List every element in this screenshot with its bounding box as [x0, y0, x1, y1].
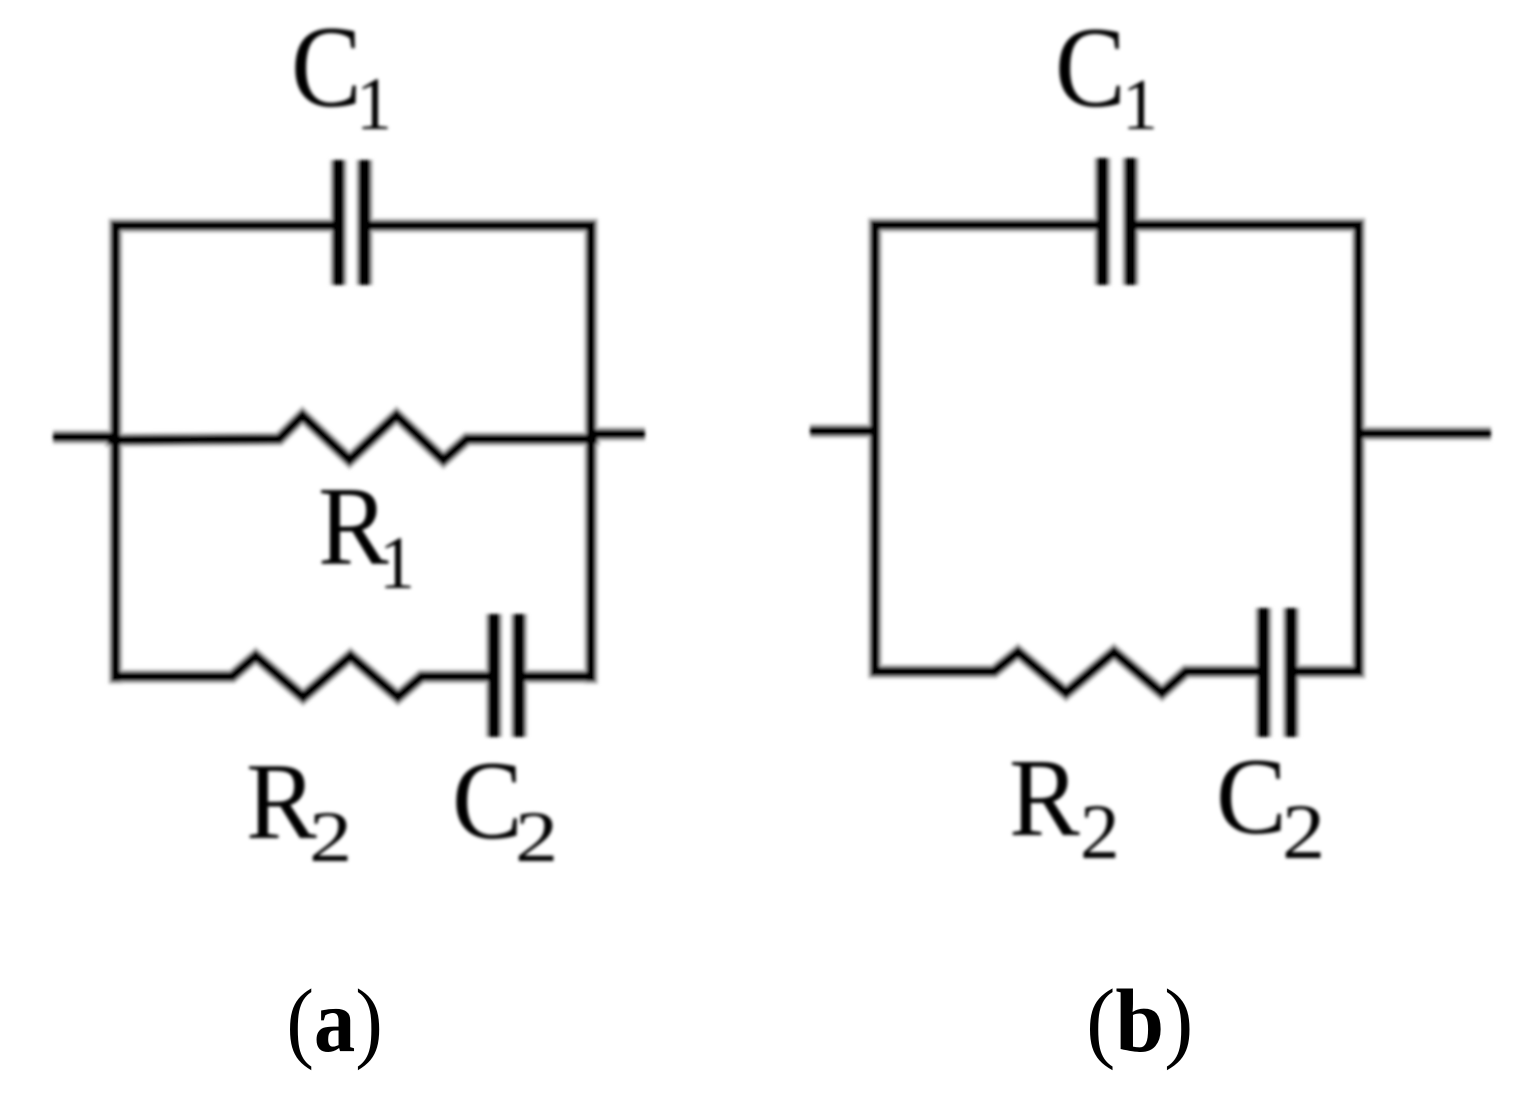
svg-text:1: 1 — [1122, 63, 1158, 145]
svg-text:(b): (b) — [1086, 972, 1193, 1071]
svg-text:2: 2 — [309, 798, 352, 878]
svg-text:C: C — [1055, 3, 1126, 131]
svg-text:C: C — [452, 738, 523, 862]
svg-text:R: R — [246, 742, 317, 863]
svg-text:2: 2 — [1080, 789, 1120, 876]
svg-text:C: C — [291, 3, 362, 132]
svg-text:1: 1 — [379, 522, 415, 605]
svg-text:1: 1 — [356, 63, 392, 146]
svg-text:(a): (a) — [286, 971, 383, 1071]
svg-text:C: C — [1216, 737, 1287, 858]
svg-text:2: 2 — [1282, 788, 1325, 875]
svg-text:2: 2 — [515, 798, 558, 878]
svg-text:R: R — [1009, 737, 1080, 860]
